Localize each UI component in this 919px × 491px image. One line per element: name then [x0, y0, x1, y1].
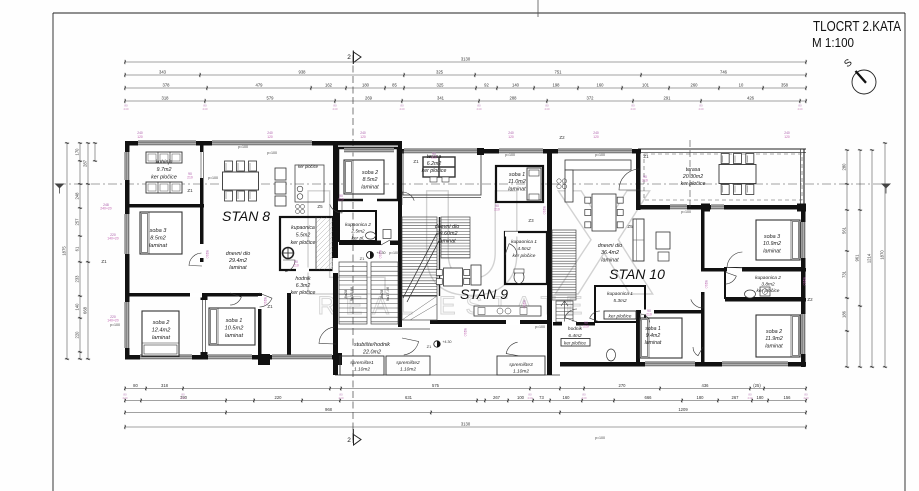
door soba1-8 [230, 293, 241, 305]
svg-text:162: 162 [325, 83, 333, 88]
svg-text:233: 233 [75, 275, 80, 283]
furniture bed soba1-8 [209, 308, 255, 345]
wall terrace10 right rail [803, 149, 805, 210]
wall vestibule8 [287, 293, 291, 357]
svg-text:240: 240 [338, 396, 343, 400]
door opening stan8 entry [333, 258, 339, 273]
furniture kitchen counter STAN8 [295, 165, 324, 202]
svg-text:hodnik: hodnik [295, 276, 311, 282]
door opening bath8 [296, 268, 309, 273]
svg-text:spremište1: spremište1 [350, 360, 374, 366]
svg-text:ker pločice: ker pločice [291, 290, 316, 296]
svg-text:11.9m2: 11.9m2 [765, 336, 783, 342]
stairs divider wall [439, 217, 441, 296]
door bath9 [505, 244, 517, 255]
stairs wide flight upper [441, 217, 470, 258]
level marker corridor [434, 341, 440, 347]
svg-text:160: 160 [597, 83, 605, 88]
svg-text:270: 270 [619, 383, 627, 388]
door terasa10 entry [619, 169, 640, 190]
svg-text:240: 240 [698, 107, 703, 111]
svg-text:731: 731 [842, 270, 847, 278]
furniture dining table STAN8 [223, 172, 259, 190]
svg-text:61: 61 [75, 246, 80, 251]
svg-text:436: 436 [702, 383, 710, 388]
svg-text:210: 210 [205, 253, 209, 259]
svg-text:210: 210 [542, 209, 546, 215]
door opening stan10 entry [562, 322, 576, 327]
window left kitchen [125, 152, 130, 180]
svg-text:140+20: 140+20 [107, 319, 119, 323]
svg-text:2: 2 [347, 54, 351, 61]
svg-text:kupaonica 1: kupaonica 1 [607, 291, 633, 297]
dimension chain left mini [94, 143, 96, 161]
furniture table STAN9 [444, 268, 463, 286]
svg-text:spremište2: spremište2 [396, 360, 420, 366]
wall soba2-8 box [338, 148, 398, 200]
furniture bed soba3-8 [140, 212, 182, 254]
furniture sofa STAN9 [471, 265, 481, 285]
svg-text:240+20: 240+20 [100, 207, 112, 211]
wall hall10 vertical low [701, 292, 705, 362]
window bottom soba2-10 [722, 362, 788, 367]
svg-text:666: 666 [645, 395, 653, 400]
furniture counter STAN9 [474, 306, 541, 316]
dimension chain top total [125, 61, 806, 63]
svg-text:dnevni dio: dnevni dio [226, 251, 251, 257]
svg-text:5.3m2: 5.3m2 [613, 298, 627, 304]
svg-text:426: 426 [747, 96, 755, 101]
svg-text:kupaonica 2: kupaonica 2 [755, 275, 781, 281]
svg-text:p=100: p=100 [681, 210, 691, 214]
svg-text:laminat: laminat [438, 238, 456, 244]
svg-text:STAN 8: STAN 8 [222, 208, 270, 224]
svg-text:210: 210 [642, 179, 648, 183]
window right soba3-10 [801, 222, 806, 258]
dimension chain right 4 [884, 143, 886, 367]
wall soba2-10 top [725, 298, 806, 302]
wall bottom right section [560, 362, 806, 367]
svg-text:1.10m2: 1.10m2 [513, 368, 529, 374]
door opening soba1-8b [258, 296, 263, 309]
door opening soba3-10 [727, 268, 742, 273]
door stan10 bath2 [725, 272, 736, 284]
wall terrace10 left [636, 149, 641, 210]
door opening kitchen8 [200, 152, 206, 178]
svg-text:210: 210 [463, 331, 467, 337]
svg-text:80: 80 [133, 383, 138, 388]
wall soba3 bottom [125, 293, 262, 297]
svg-text:198: 198 [553, 83, 561, 88]
window terrace10 wall B [711, 205, 724, 210]
furniture kupaonica2-8 fixtures [366, 232, 376, 239]
wall terrace10 top rail [638, 148, 806, 150]
room spremiste3 box [497, 356, 545, 375]
svg-text:1875: 1875 [62, 246, 67, 256]
wall soba1-10 top [636, 310, 701, 314]
svg-text:p=100: p=100 [505, 153, 515, 157]
svg-text:291: 291 [664, 96, 672, 101]
svg-text:140: 140 [512, 83, 520, 88]
svg-text:240: 240 [581, 396, 586, 400]
svg-text:TLOCRT 2.KATA: TLOCRT 2.KATA [813, 18, 901, 35]
furniture kitchen bar STAN8 [275, 168, 286, 180]
window kitchen top [138, 141, 196, 146]
svg-text:+4.30: +4.30 [442, 340, 451, 344]
svg-text:Z3: Z3 [528, 218, 534, 223]
door opening bath9 [505, 232, 518, 237]
wall top outer STAN9-10 [402, 149, 641, 154]
wall bottom mid thin [335, 374, 560, 376]
border frame right [904, 13, 906, 491]
svg-text:210: 210 [704, 283, 708, 289]
window left soba2 [125, 302, 130, 348]
wall kitchen right [200, 143, 204, 262]
dimension chain bottom 4 [125, 426, 806, 428]
svg-text:220: 220 [275, 395, 283, 400]
door opening soba1-10 [641, 310, 654, 315]
wall soba3 top [125, 204, 204, 208]
svg-text:STAN 9: STAN 9 [460, 286, 508, 302]
svg-text:laminat: laminat [361, 184, 379, 190]
svg-text:ker pl.: ker pl. [351, 235, 364, 241]
svg-text:11.0m2: 11.0m2 [508, 179, 526, 185]
svg-text:10.5m2: 10.5m2 [225, 325, 245, 331]
svg-text:240: 240 [122, 396, 127, 400]
svg-text:kupaonica 2: kupaonica 2 [345, 222, 371, 228]
door stan10 entry [565, 309, 577, 322]
svg-text:248: 248 [75, 192, 80, 200]
door stan10 soba1 [691, 295, 703, 308]
svg-text:575: 575 [432, 383, 440, 388]
svg-text:laminat: laminat [229, 265, 247, 271]
svg-text:2.5m2: 2.5m2 [350, 229, 365, 235]
svg-text:631: 631 [405, 395, 413, 400]
svg-text:341: 341 [437, 96, 445, 101]
door opening soba3-8 [200, 244, 206, 258]
svg-text:318: 318 [162, 96, 170, 101]
door stan10 soba3 [727, 252, 743, 268]
svg-text:soba 1: soba 1 [509, 172, 525, 178]
svg-text:10.9m2: 10.9m2 [763, 241, 781, 247]
room spremiste2 box [386, 356, 430, 375]
wall left outer [125, 141, 130, 359]
svg-text:210: 210 [263, 300, 267, 306]
svg-text:343: 343 [159, 70, 167, 75]
svg-text:Z2: Z2 [559, 135, 565, 140]
furniture kitchen cabinets top [146, 152, 182, 163]
svg-text:85: 85 [392, 83, 397, 88]
svg-text:10: 10 [739, 83, 744, 88]
wall soba3-10 bottom [701, 268, 806, 272]
svg-text:Z1: Z1 [187, 188, 193, 193]
dimension chain bottom 3 [125, 412, 806, 414]
svg-text:961: 961 [855, 254, 860, 262]
svg-text:9.4m2: 9.4m2 [646, 333, 661, 339]
svg-text:p=100: p=100 [535, 325, 545, 329]
wall right outer [801, 210, 806, 367]
svg-text:spremište3: spremište3 [509, 362, 533, 368]
svg-text:1.10m2: 1.10m2 [400, 366, 416, 372]
stairs entry lower [556, 301, 573, 322]
svg-text:561: 561 [842, 226, 847, 234]
stairs cut line [403, 233, 437, 298]
svg-text:267: 267 [493, 395, 501, 400]
door stan8 main arc [319, 327, 336, 344]
svg-text:ker pločice: ker pločice [422, 168, 447, 174]
svg-text:Z5: Z5 [627, 224, 633, 229]
stairs landing [402, 296, 437, 320]
svg-text:92: 92 [484, 83, 489, 88]
wall soba1-9 box [496, 166, 543, 202]
svg-text:Z1: Z1 [360, 256, 365, 261]
wall post terrace10 B [797, 204, 806, 212]
stair block bottom line [338, 328, 430, 330]
furniture bath10 fixtures [745, 290, 756, 298]
room spremiste1 box [340, 356, 384, 375]
dimension chain left outer [66, 143, 68, 359]
svg-text:210: 210 [494, 208, 500, 212]
svg-text:210: 210 [583, 325, 589, 329]
door soba2-8 entry [330, 200, 342, 213]
svg-text:9.7m2: 9.7m2 [157, 167, 172, 173]
svg-text:p=100: p=100 [267, 151, 277, 155]
wall party STAN8 stairs [333, 141, 338, 375]
wall kupaonica2-8 bottom [339, 241, 402, 246]
window bottom soba2-8 [140, 355, 192, 360]
svg-text:ker pločice: ker pločice [513, 253, 536, 259]
door hodnik8 [259, 293, 272, 307]
dimension chain top 3 [125, 87, 806, 89]
wall post entry8 A [258, 354, 270, 365]
axis 2 line [352, 55, 354, 443]
svg-text:210: 210 [293, 264, 299, 268]
svg-text:210: 210 [431, 156, 437, 160]
dimension chain right 2 [859, 150, 861, 367]
dimension chain left 2 [79, 143, 81, 359]
svg-text:1209: 1209 [678, 407, 688, 412]
furniture bed soba2-10 [756, 315, 800, 357]
svg-text:laminat: laminat [765, 343, 783, 349]
dashed axis terrace [689, 140, 691, 208]
svg-text:4.5m2: 4.5m2 [517, 246, 531, 252]
dimension chain top 2 [125, 74, 806, 76]
svg-text:ker pločice: ker pločice [298, 164, 319, 169]
room kupaonica2-8 box [339, 211, 376, 241]
svg-text:ker pločice: ker pločice [151, 175, 177, 181]
wall bath8 box [280, 217, 333, 270]
border frame top [53, 12, 905, 14]
svg-text:287: 287 [83, 159, 88, 167]
svg-text:269: 269 [365, 96, 373, 101]
svg-text:100: 100 [517, 395, 525, 400]
window soba2-8 top [344, 148, 394, 153]
centerline horizontal [57, 183, 890, 185]
furniture bed soba1-9 [527, 168, 541, 200]
svg-text:Z2: Z2 [807, 297, 813, 302]
svg-text:240: 240 [797, 107, 802, 111]
window right soba2-10 [801, 314, 806, 354]
furniture bed soba2-9 [344, 160, 384, 194]
svg-text:240: 240 [123, 107, 128, 111]
svg-text:36.4m2: 36.4m2 [601, 250, 619, 256]
svg-text:260: 260 [691, 83, 699, 88]
window living8 top [212, 141, 312, 146]
svg-text:140+20: 140+20 [107, 237, 119, 241]
svg-text:ker pločice: ker pločice [757, 288, 780, 294]
wall soba1-2 divider [258, 293, 262, 355]
svg-text:318: 318 [161, 383, 169, 388]
svg-text:soba 1: soba 1 [645, 326, 661, 332]
svg-text:p=100: p=100 [389, 251, 399, 255]
furniture terasa10 table [719, 165, 756, 184]
svg-text:240: 240 [630, 107, 635, 111]
door bath8 [283, 260, 295, 272]
svg-text:soba 2: soba 2 [153, 320, 171, 326]
svg-text:240: 240 [527, 396, 532, 400]
door soba3-8 [189, 253, 202, 266]
svg-text:325: 325 [436, 70, 444, 75]
wall bottom left section [125, 355, 335, 360]
svg-text:laminat: laminat [763, 248, 781, 254]
furniture bath9 wc [514, 271, 524, 284]
furniture kitchen counter STAN10 [565, 160, 631, 170]
svg-text:soba 2: soba 2 [766, 329, 782, 335]
svg-text:Z1: Z1 [643, 154, 649, 159]
svg-text:hodnik: hodnik [568, 326, 583, 332]
dimension chain right 3 [871, 150, 873, 367]
wall soba1-10 left [636, 310, 640, 362]
svg-text:579: 579 [267, 96, 275, 101]
svg-text:ker pločice: ker pločice [291, 240, 316, 246]
svg-text:soba 1: soba 1 [226, 318, 243, 324]
svg-text:Z5: Z5 [317, 204, 323, 209]
svg-text:8x28: 8x28 [379, 289, 384, 298]
svg-text:156: 156 [784, 395, 792, 400]
furniture table STAN10 [592, 194, 616, 231]
svg-text:120: 120 [593, 135, 599, 139]
svg-text:257: 257 [75, 218, 80, 226]
svg-text:746: 746 [720, 70, 728, 75]
svg-text:Z1: Z1 [413, 159, 419, 164]
svg-text:p=100: p=100 [238, 145, 248, 149]
door opening soba2-9 [363, 198, 377, 203]
svg-text:laminat: laminat [225, 333, 243, 339]
svg-text:kupaonica 1: kupaonica 1 [511, 239, 537, 245]
svg-text:8.5m2: 8.5m2 [363, 177, 378, 183]
svg-text:stubište/hodnik: stubište/hodnik [354, 342, 390, 348]
wall terasa9 [403, 151, 481, 195]
svg-text:210: 210 [646, 313, 652, 317]
wall soba rooms top [125, 293, 262, 297]
furniture bed soba1-10 [640, 318, 682, 358]
dimension chain bottom 2 [125, 400, 806, 402]
svg-text:210: 210 [187, 176, 193, 180]
svg-text:325: 325 [437, 83, 445, 88]
svg-text:9x16.66: 9x16.66 [349, 286, 354, 301]
svg-text:terasa: terasa [686, 167, 701, 173]
furniture armchair STAN10 [656, 232, 670, 249]
wall hall10 vertical [701, 209, 705, 268]
svg-text:180: 180 [757, 395, 765, 400]
sheet fold mark [537, 0, 539, 17]
svg-text:210: 210 [338, 198, 344, 202]
svg-text:22.0m2: 22.0m2 [362, 349, 381, 355]
window bottom soba1-10 [645, 362, 695, 367]
svg-text:laminat: laminat [152, 335, 170, 341]
svg-text:6.4m2: 6.4m2 [568, 333, 582, 339]
svg-text:160: 160 [563, 395, 571, 400]
svg-text:120: 120 [137, 135, 143, 139]
window stan10 top A [558, 149, 632, 154]
furniture sofa STAN10 [633, 219, 644, 261]
svg-text:120: 120 [508, 135, 514, 139]
dimension chain left 3 [87, 143, 89, 359]
svg-text:kuhinja: kuhinja [155, 160, 172, 166]
compass needle [856, 71, 867, 83]
svg-text:1.10m2: 1.10m2 [354, 366, 370, 372]
wall bath10-1 box [595, 286, 645, 322]
svg-text:186: 186 [842, 310, 847, 318]
svg-text:soba 3: soba 3 [764, 234, 780, 240]
svg-text:240: 240 [202, 107, 207, 111]
svg-text:210: 210 [378, 253, 382, 259]
svg-text:120: 120 [784, 135, 790, 139]
svg-text:Z1: Z1 [427, 344, 432, 349]
svg-text:668: 668 [83, 306, 88, 314]
svg-text:STAN 10: STAN 10 [609, 266, 665, 282]
svg-text:240: 240 [476, 107, 481, 111]
svg-text:5.5m2: 5.5m2 [296, 233, 311, 239]
svg-text:6.2m2: 6.2m2 [427, 161, 442, 167]
stairs main flight B [371, 262, 398, 324]
wall bath10-2 box [725, 268, 804, 298]
svg-text:3.8m2: 3.8m2 [761, 282, 775, 288]
dimension chain top 4 [125, 100, 806, 102]
svg-text:288: 288 [510, 96, 518, 101]
svg-text:170: 170 [75, 148, 80, 156]
centerline right arrow [881, 184, 891, 189]
furniture bed soba3-10 [756, 220, 800, 260]
wall top outer STAN8 [125, 141, 402, 146]
svg-text:120: 120 [360, 135, 366, 139]
svg-text:1214: 1214 [867, 253, 872, 263]
svg-text:240: 240 [747, 396, 752, 400]
svg-text:220: 220 [75, 331, 80, 339]
window left soba3 [125, 214, 130, 254]
svg-text:p=100: p=100 [208, 176, 218, 180]
window terasa9 rail [404, 149, 477, 154]
furniture bath8 fixtures [283, 248, 294, 259]
svg-text:240: 240 [803, 396, 808, 400]
terrace10 dashed boundary [644, 154, 802, 200]
svg-text:3130: 3130 [461, 57, 471, 62]
door terasa9 [402, 192, 414, 205]
door opening stan8 main [272, 355, 332, 360]
svg-text:20.30m2: 20.30m2 [682, 174, 703, 180]
window soba1-9 top [499, 149, 543, 154]
dimension chain right 1 [846, 150, 848, 367]
svg-text:laminat: laminat [508, 186, 526, 192]
svg-text:ker pločice: ker pločice [609, 314, 632, 320]
centerline left arrow [55, 184, 65, 189]
svg-text:laminat: laminat [645, 340, 662, 346]
svg-text:210: 210 [522, 303, 526, 309]
border frame left [52, 13, 54, 491]
svg-text:kupaonica: kupaonica [291, 225, 315, 231]
svg-text:laminat: laminat [601, 257, 619, 263]
wall post entry8 B [333, 353, 342, 365]
